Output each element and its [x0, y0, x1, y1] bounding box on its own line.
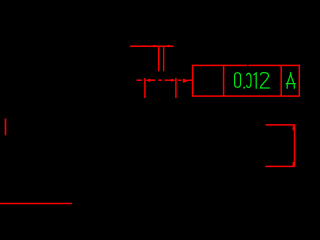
- arrowhead left (outside, pointing right at left extension line): [154, 45, 159, 48]
- digit 1: [254, 73, 256, 88]
- notch bottom inside corner: [293, 162, 295, 166]
- leader arrowhead at feature control frame: [183, 79, 190, 83]
- frame divider 2: [280, 65, 282, 96]
- frame divider 1: [223, 65, 225, 96]
- decimal point: [243, 87, 245, 89]
- tolerance text 0.012 (stroke glyphs): [235, 73, 270, 89]
- part corner outline (right side): [265, 125, 295, 166]
- arrowhead (inside, pointing right at extension line x=176): [171, 79, 175, 83]
- extension line 4 (drop line at x=176): [175, 78, 177, 98]
- digit 0 (open left): [247, 73, 251, 87]
- extension line 2 (tolerance zone plane edge): [163, 47, 165, 71]
- extension line 1 (tolerance zone plane edge): [158, 47, 160, 71]
- notch top inside corner: [293, 126, 295, 130]
- part outline fragment (left edge): [5, 119, 7, 136]
- feature control frame box: [193, 65, 300, 96]
- gap in top border of frame: [247, 64, 249, 67]
- datum letter A: [286, 73, 295, 89]
- extension line 3 (drop line at x=145): [144, 78, 146, 98]
- arrowhead (inside, pointing left at extension line x=145): [145, 79, 150, 83]
- part outline fragment (bottom left): [0, 203, 72, 205]
- digit 2: [261, 73, 270, 88]
- digit 0: [235, 73, 241, 88]
- arrowhead right (outside, pointing left at right extension line): [164, 45, 169, 48]
- dash-dot dimension/leader line y=80: [137, 79, 193, 81]
- dimension line (top, magnified tolerance zone width): [130, 45, 174, 47]
